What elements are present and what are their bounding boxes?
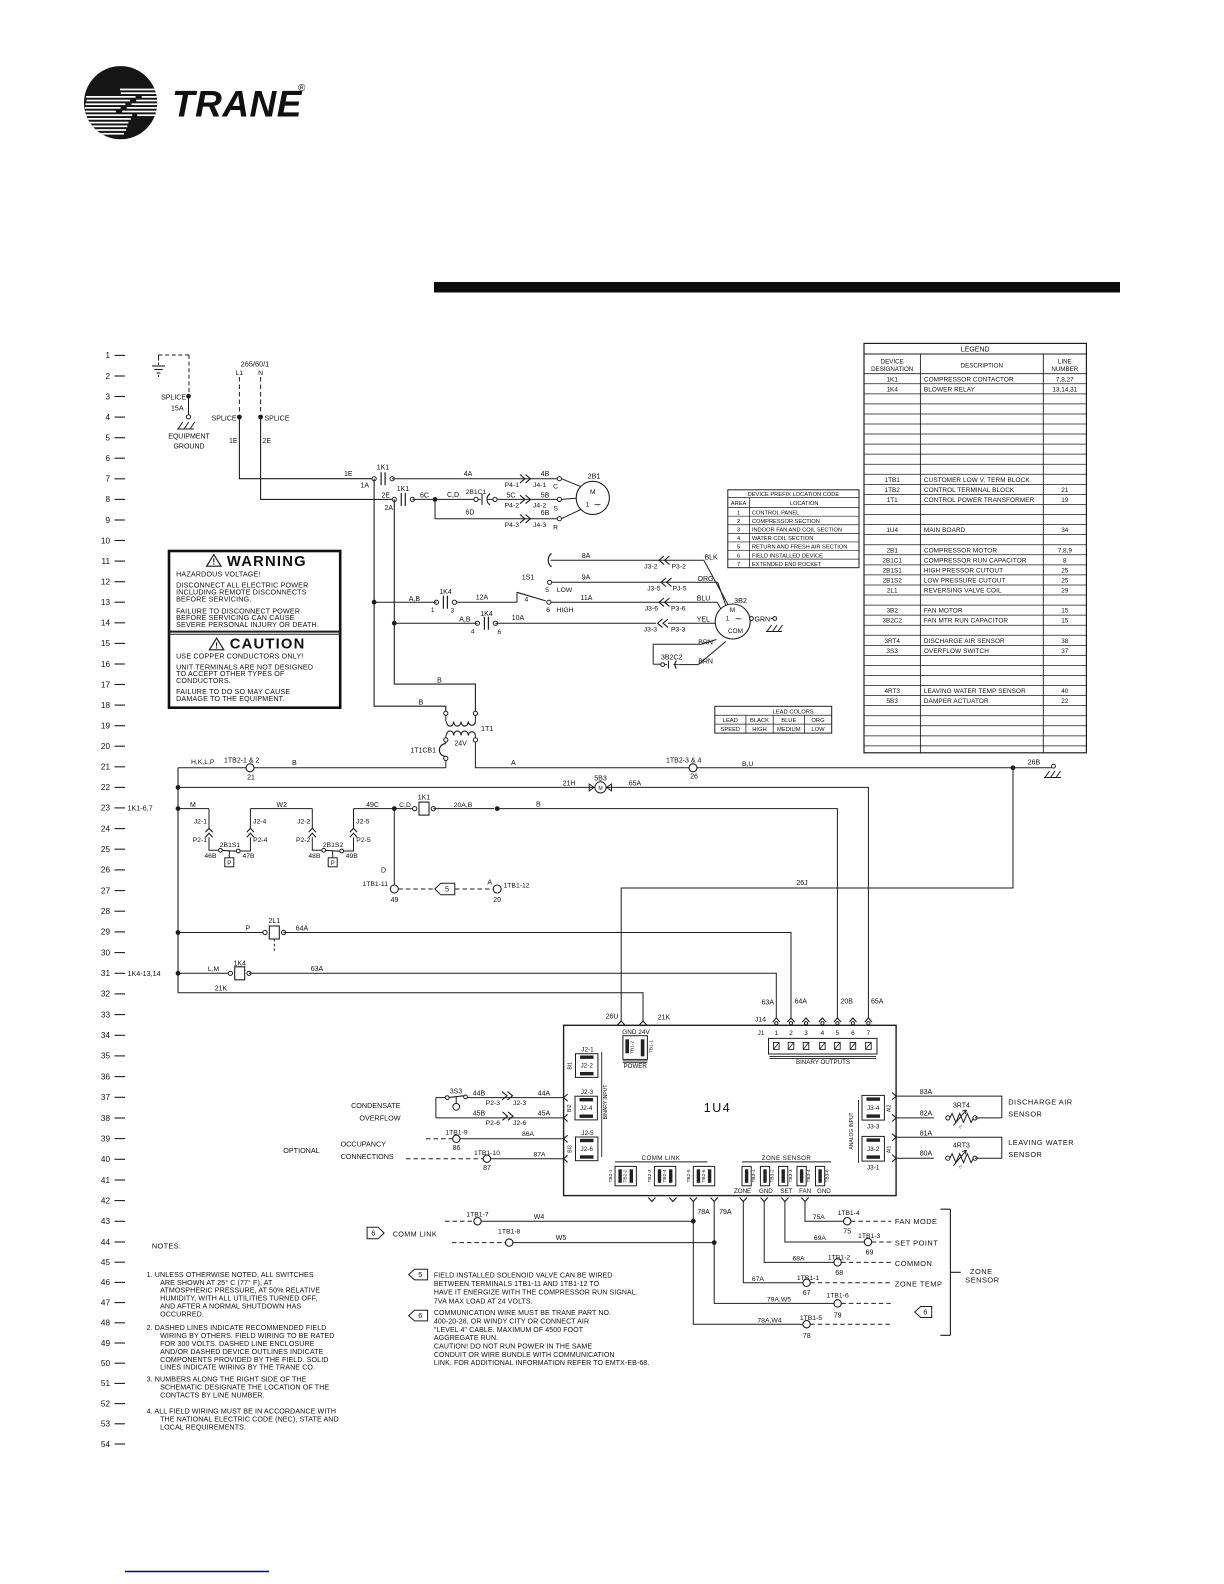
terminal 1TB1-5 bbox=[757, 1315, 891, 1340]
svg-text:ANALOG INPUT: ANALOG INPUT bbox=[849, 1112, 855, 1149]
svg-text:27: 27 bbox=[101, 886, 111, 895]
wire 78A bbox=[693, 1202, 803, 1325]
svg-text:LOCAL REQUIREMENTS.: LOCAL REQUIREMENTS. bbox=[160, 1424, 246, 1432]
svg-text:1E: 1E bbox=[229, 438, 238, 445]
svg-text:DESCRIPTION: DESCRIPTION bbox=[961, 363, 1003, 370]
terminal 1TB1-10 (87A wire) bbox=[406, 1150, 564, 1172]
label EQUIPMENT GROUND bbox=[168, 434, 210, 451]
svg-text:6D: 6D bbox=[466, 509, 475, 516]
svg-text:J2-2: J2-2 bbox=[297, 818, 310, 825]
label 20B (vertical) bbox=[841, 999, 854, 1006]
wire 49C bbox=[354, 802, 395, 809]
svg-text:CONTROL PANEL: CONTROL PANEL bbox=[752, 510, 799, 516]
svg-text:FOR 300 VOLTS. DASHED LINE ENC: FOR 300 VOLTS. DASHED LINE ENCLOSURE bbox=[160, 1340, 315, 1348]
svg-text:GND: GND bbox=[622, 1029, 637, 1036]
svg-text:50: 50 bbox=[101, 1359, 111, 1368]
blower relay coil 1K4 bbox=[228, 960, 776, 1018]
note flag 6 comm link bbox=[367, 1227, 437, 1239]
svg-text:EXTENDED END POCKET: EXTENDED END POCKET bbox=[752, 562, 822, 568]
svg-text:1TB1-6: 1TB1-6 bbox=[826, 1292, 849, 1299]
connector J3-5/PJ-5 bbox=[647, 578, 686, 592]
svg-text:ZONE: ZONE bbox=[734, 1188, 751, 1195]
label 2E (line 8) bbox=[382, 493, 391, 500]
fan motor 3B2 bbox=[715, 596, 750, 639]
svg-text:3B2C2: 3B2C2 bbox=[661, 655, 683, 662]
svg-text:LEAVING WATER: LEAVING WATER bbox=[1008, 1138, 1074, 1147]
svg-text:ORG: ORG bbox=[811, 718, 825, 724]
svg-text:64A: 64A bbox=[296, 926, 309, 933]
svg-text:2B1S1: 2B1S1 bbox=[883, 567, 903, 574]
svg-text:A: A bbox=[511, 758, 516, 767]
svg-text:R: R bbox=[553, 525, 558, 532]
svg-text:SENSOR: SENSOR bbox=[965, 1276, 999, 1285]
svg-text:19: 19 bbox=[1061, 497, 1069, 504]
connector P4-1/J4-1 bbox=[505, 471, 550, 489]
svg-text:1T1: 1T1 bbox=[481, 724, 493, 733]
svg-text:C,D: C,D bbox=[399, 802, 411, 809]
svg-text:12A: 12A bbox=[476, 595, 489, 602]
node D (line 23) bbox=[392, 806, 397, 811]
compressor contactor 1K1 contact (line 8) bbox=[384, 486, 414, 512]
svg-text:21: 21 bbox=[247, 774, 255, 781]
svg-text:P2-1: P2-1 bbox=[193, 837, 208, 844]
svg-text:1K4-13,14: 1K4-13,14 bbox=[128, 969, 161, 978]
svg-text:CONDUCTORS.: CONDUCTORS. bbox=[176, 677, 231, 685]
compressor contactor 1K1 contact (line 7) bbox=[360, 465, 394, 490]
comm link connector TB2-5/TB2-6 bbox=[686, 1166, 715, 1185]
note 2 bbox=[147, 1324, 335, 1372]
svg-text:87A: 87A bbox=[533, 1151, 546, 1158]
schematic line-number scale 1-54 bbox=[101, 351, 161, 1449]
svg-text:J2-1: J2-1 bbox=[194, 818, 207, 825]
terminal C bbox=[553, 477, 561, 491]
equipment ground terminal bbox=[186, 415, 190, 419]
svg-text:J3-1: J3-1 bbox=[867, 1164, 880, 1171]
wire 75A fan mode bbox=[805, 1202, 843, 1222]
wire 21H (line 22) bbox=[178, 781, 593, 788]
svg-text:SET POINT: SET POINT bbox=[895, 1238, 938, 1247]
svg-text:COMMON: COMMON bbox=[895, 1259, 933, 1268]
svg-text:CONDUIT OR WIRE BUNDLE WITH CO: CONDUIT OR WIRE BUNDLE WITH COMMUNICATIO… bbox=[434, 1352, 615, 1359]
svg-text:1TB1-5: 1TB1-5 bbox=[800, 1315, 823, 1322]
svg-text:6: 6 bbox=[923, 1308, 927, 1317]
zone connector TB3-3 bbox=[779, 1166, 794, 1194]
label 63A (line 31) bbox=[311, 966, 324, 973]
svg-text:80A: 80A bbox=[920, 1151, 933, 1158]
svg-text:∼: ∼ bbox=[594, 500, 602, 511]
svg-text:L1: L1 bbox=[236, 370, 244, 377]
svg-text:1T1: 1T1 bbox=[887, 497, 898, 504]
svg-text:36: 36 bbox=[101, 1072, 111, 1081]
svg-text:10A: 10A bbox=[512, 615, 525, 622]
binary input bracket line bbox=[602, 1052, 609, 1157]
node line 31 bbox=[176, 971, 181, 976]
svg-text:LINES INDICATE WIRING BY THE T: LINES INDICATE WIRING BY THE TRANE CO. bbox=[160, 1364, 315, 1372]
svg-text:LEAD COLORS: LEAD COLORS bbox=[773, 709, 814, 715]
svg-text:COMPRESSOR RUN CAPACITOR: COMPRESSOR RUN CAPACITOR bbox=[924, 557, 1027, 564]
terminal 1TB2-1 and 2 bbox=[224, 757, 260, 781]
svg-text:1U4: 1U4 bbox=[704, 1101, 731, 1115]
svg-text:4A: 4A bbox=[464, 471, 473, 478]
svg-text:COMPRESSOR MOTOR: COMPRESSOR MOTOR bbox=[924, 547, 997, 554]
svg-text:P3-6: P3-6 bbox=[671, 605, 686, 612]
svg-text:78: 78 bbox=[803, 1333, 811, 1340]
svg-text:TB2-2: TB2-2 bbox=[623, 1169, 629, 1182]
svg-text:P2-2: P2-2 bbox=[296, 837, 311, 844]
svg-text:6: 6 bbox=[498, 629, 502, 636]
svg-text:49C: 49C bbox=[366, 802, 379, 809]
svg-text:HIGH: HIGH bbox=[752, 727, 767, 733]
svg-text:1TB1-12: 1TB1-12 bbox=[504, 882, 530, 889]
svg-text:52: 52 bbox=[101, 1399, 111, 1408]
svg-text:PJ-5: PJ-5 bbox=[673, 585, 687, 592]
label 1E (line 7) bbox=[344, 471, 353, 478]
label J14 bbox=[755, 1017, 766, 1024]
svg-text:13,14,31: 13,14,31 bbox=[1052, 386, 1077, 393]
svg-text:1TB1: 1TB1 bbox=[885, 477, 901, 484]
svg-text:45A: 45A bbox=[538, 1111, 551, 1118]
svg-text:3: 3 bbox=[804, 1030, 808, 1037]
svg-text:5: 5 bbox=[737, 545, 740, 551]
svg-text:LEAD: LEAD bbox=[723, 718, 738, 724]
wire 6D (line 9) bbox=[435, 499, 557, 518]
svg-text:4: 4 bbox=[737, 536, 740, 542]
svg-text:6: 6 bbox=[418, 1311, 422, 1320]
svg-text:J14: J14 bbox=[755, 1017, 766, 1024]
connector J2-2/P2-2 drop bbox=[296, 809, 316, 847]
svg-text:3S3: 3S3 bbox=[450, 1089, 463, 1096]
svg-text:EQUIPMENT: EQUIPMENT bbox=[168, 434, 210, 441]
svg-text:9A: 9A bbox=[582, 575, 591, 582]
svg-text:BLUE: BLUE bbox=[781, 718, 796, 724]
svg-text:2B1S2: 2B1S2 bbox=[323, 842, 344, 849]
terminal S bbox=[553, 497, 561, 512]
node line 14 on N leg bbox=[392, 621, 397, 626]
svg-text:5: 5 bbox=[445, 885, 449, 894]
svg-text:L,M: L,M bbox=[208, 966, 220, 973]
svg-text:21: 21 bbox=[101, 763, 111, 772]
splice node (equipment ground lead) bbox=[161, 394, 191, 415]
svg-text:J4-2: J4-2 bbox=[533, 503, 546, 510]
svg-text:RETURN AND FRESH AIR SECTION: RETURN AND FRESH AIR SECTION bbox=[752, 545, 847, 551]
svg-text:5B: 5B bbox=[541, 492, 550, 499]
svg-text:P4-2: P4-2 bbox=[505, 503, 520, 510]
svg-text:SET: SET bbox=[780, 1188, 792, 1195]
svg-text:SEVERE PERSONAL INJURY OR DEAT: SEVERE PERSONAL INJURY OR DEATH. bbox=[176, 621, 319, 629]
fan motor run capacitor 3B2C2 bbox=[653, 655, 682, 669]
circuit breaker 1T1CB1 bbox=[410, 742, 448, 768]
Trane logo bbox=[84, 66, 306, 139]
svg-text:GND: GND bbox=[817, 1188, 831, 1195]
svg-text:WATER COIL SECTION: WATER COIL SECTION bbox=[752, 536, 813, 542]
svg-text:LEAVING WATER TEMP SENSOR: LEAVING WATER TEMP SENSOR bbox=[924, 688, 1026, 695]
svg-text:7: 7 bbox=[867, 1030, 871, 1037]
svg-text:MEDIUM: MEDIUM bbox=[777, 727, 801, 733]
lead colors table bbox=[715, 706, 832, 733]
svg-text:46B: 46B bbox=[204, 853, 217, 860]
svg-text:CONTROL POWER TRANSFORMER: CONTROL POWER TRANSFORMER bbox=[924, 497, 1035, 504]
svg-text:TB1-1: TB1-1 bbox=[648, 1040, 654, 1053]
left control bus bbox=[177, 768, 179, 993]
wire D to 1TB1-11 bbox=[381, 809, 394, 885]
svg-text:FAN MTR RUN CAPACITOR: FAN MTR RUN CAPACITOR bbox=[924, 618, 1009, 625]
svg-text:5B3: 5B3 bbox=[887, 698, 899, 705]
svg-text:HAZARDOUS VOLTAGE!: HAZARDOUS VOLTAGE! bbox=[176, 571, 261, 579]
svg-text:P4-3: P4-3 bbox=[505, 522, 520, 529]
svg-text:26J: 26J bbox=[796, 880, 807, 887]
splice node L1 bbox=[212, 415, 242, 423]
svg-text:WIRING BY OTHERS. FIELD WIRING: WIRING BY OTHERS. FIELD WIRING TO BE RAT… bbox=[160, 1332, 334, 1340]
svg-text:J3-6: J3-6 bbox=[645, 605, 658, 612]
svg-text:29: 29 bbox=[101, 928, 111, 937]
svg-text:24V: 24V bbox=[454, 741, 467, 748]
svg-text:1TB1-11: 1TB1-11 bbox=[362, 881, 388, 888]
svg-text:25: 25 bbox=[1061, 578, 1069, 585]
note flag 5 text bbox=[409, 1269, 638, 1305]
svg-text:3B2: 3B2 bbox=[887, 608, 899, 615]
svg-text:W5: W5 bbox=[556, 1235, 567, 1242]
svg-text:ARE SHOWN AT 25° C (77° F), AT: ARE SHOWN AT 25° C (77° F), AT bbox=[160, 1279, 273, 1287]
svg-text:DAMAGE TO THE EQUIPMENT.: DAMAGE TO THE EQUIPMENT. bbox=[176, 695, 284, 703]
svg-text:15A: 15A bbox=[171, 406, 184, 413]
svg-text:COM: COM bbox=[728, 628, 743, 635]
svg-text:53: 53 bbox=[101, 1420, 111, 1429]
svg-text:LOCATION: LOCATION bbox=[790, 501, 819, 507]
zone connector TB3-1 bbox=[734, 1166, 757, 1194]
wire BLU to fan motor bbox=[697, 596, 722, 610]
svg-text:COMM LINK: COMM LINK bbox=[393, 1229, 437, 1238]
svg-text:39: 39 bbox=[101, 1134, 111, 1143]
label 26U bbox=[606, 1014, 619, 1021]
damper actuator 5B3 bbox=[589, 775, 611, 793]
svg-text:P2-6: P2-6 bbox=[486, 1120, 501, 1127]
svg-text:LEGEND: LEGEND bbox=[961, 346, 990, 353]
label 63A (vertical) bbox=[762, 1000, 775, 1007]
warning and caution box bbox=[169, 551, 340, 708]
svg-text:44B: 44B bbox=[473, 1091, 486, 1098]
svg-text:83A: 83A bbox=[920, 1089, 933, 1096]
svg-text:1A: 1A bbox=[360, 483, 369, 490]
wire B vertical from 1K1 line7 to transformer primary left bbox=[374, 479, 446, 711]
svg-text:45: 45 bbox=[101, 1258, 111, 1267]
svg-text:5: 5 bbox=[545, 587, 549, 594]
svg-text:ORG: ORG bbox=[698, 576, 714, 583]
note flag 6 (zone sensor) bbox=[915, 1307, 932, 1318]
svg-text:2L1: 2L1 bbox=[268, 918, 280, 925]
svg-text:25: 25 bbox=[1061, 567, 1069, 574]
svg-text:2B1S2: 2B1S2 bbox=[883, 578, 903, 585]
svg-text:7: 7 bbox=[737, 562, 740, 568]
svg-text:BEFORE SERVICING.: BEFORE SERVICING. bbox=[176, 595, 251, 603]
svg-text:31: 31 bbox=[101, 969, 111, 978]
svg-text:2. DASHED LINES INDICATE RECO: 2. DASHED LINES INDICATE RECOMMENDED FIE… bbox=[147, 1324, 327, 1332]
svg-text:7: 7 bbox=[105, 475, 110, 484]
terminal 1TB1-2 common bbox=[828, 1255, 933, 1277]
svg-text:12: 12 bbox=[101, 578, 111, 587]
svg-text:44A: 44A bbox=[538, 1091, 551, 1098]
analog input bracket line bbox=[849, 1100, 858, 1163]
svg-text:1U4: 1U4 bbox=[886, 527, 898, 534]
svg-text:1S1: 1S1 bbox=[522, 575, 535, 582]
svg-text:22: 22 bbox=[1061, 698, 1069, 705]
wire 65A (line 22) bbox=[607, 781, 869, 1018]
wire BRN lower bbox=[678, 642, 725, 666]
svg-text:J2-4: J2-4 bbox=[253, 818, 266, 825]
svg-text:GRN: GRN bbox=[755, 616, 771, 623]
svg-text:44: 44 bbox=[101, 1238, 111, 1247]
svg-text:2E: 2E bbox=[382, 493, 391, 500]
svg-text:t°: t° bbox=[959, 1165, 962, 1170]
low pressure cutout 2B1S2 bbox=[308, 842, 358, 867]
svg-text:CUSTOMER LOW V. TERM BLOCK: CUSTOMER LOW V. TERM BLOCK bbox=[924, 477, 1030, 484]
svg-text:BLU: BLU bbox=[697, 596, 711, 603]
svg-text:43: 43 bbox=[101, 1217, 111, 1226]
terminal 1TB1-1 zone temp bbox=[797, 1275, 943, 1297]
discharge air sensor 3RT4 bbox=[896, 1098, 1073, 1130]
leaving water sensor 4RT3 bbox=[896, 1138, 1074, 1170]
wire 6C to node bbox=[412, 492, 435, 499]
svg-text:1: 1 bbox=[105, 351, 110, 360]
svg-text:BLOWER RELAY: BLOWER RELAY bbox=[924, 386, 976, 393]
svg-text:AI1: AI1 bbox=[887, 1145, 893, 1153]
svg-text:78A,W4: 78A,W4 bbox=[757, 1317, 781, 1324]
analog input connector AI1 bbox=[862, 1136, 893, 1171]
svg-text:LOW PRESSURE CUTOUT: LOW PRESSURE CUTOUT bbox=[924, 578, 1006, 585]
label H,K,L,P bbox=[191, 759, 215, 766]
svg-text:7VA MAX LOAD AT 24 VOLTS.: 7VA MAX LOAD AT 24 VOLTS. bbox=[434, 1298, 533, 1305]
svg-text:J4-3: J4-3 bbox=[533, 522, 546, 529]
svg-text:1TB1-8: 1TB1-8 bbox=[498, 1229, 521, 1236]
svg-text:BLK: BLK bbox=[705, 555, 719, 562]
svg-text:1K1-6,7: 1K1-6,7 bbox=[128, 804, 153, 813]
terminal 1TB1-3 set point bbox=[858, 1233, 938, 1257]
svg-text:63A: 63A bbox=[311, 966, 324, 973]
svg-text:TRANE: TRANE bbox=[172, 84, 303, 125]
svg-text:FIELD INSTALLED SOLENOID VALVE: FIELD INSTALLED SOLENOID VALVE CAN BE WI… bbox=[434, 1273, 613, 1280]
svg-text:1. UNLESS OTHERWISE NOTED, AL: 1. UNLESS OTHERWISE NOTED, ALL SWITCHES bbox=[147, 1271, 314, 1279]
svg-text:6: 6 bbox=[851, 1030, 855, 1037]
svg-text:!: ! bbox=[215, 640, 218, 650]
label J1 and pin numbers bbox=[758, 1030, 871, 1037]
svg-text:J2-5: J2-5 bbox=[581, 1130, 594, 1137]
svg-text:USE COPPER CONDUCTORS ONLY!: USE COPPER CONDUCTORS ONLY! bbox=[176, 653, 303, 661]
svg-text:24: 24 bbox=[101, 824, 111, 833]
svg-text:1K1: 1K1 bbox=[887, 376, 899, 383]
footer link line bbox=[125, 1571, 269, 1573]
svg-text:SPLICE: SPLICE bbox=[212, 415, 237, 422]
svg-text:4B: 4B bbox=[541, 471, 550, 478]
svg-text:2L1: 2L1 bbox=[887, 588, 898, 595]
svg-text:W2: W2 bbox=[277, 802, 288, 809]
label 64A (vertical) bbox=[795, 999, 808, 1006]
wire 4A bbox=[392, 471, 557, 479]
svg-text:J2-4: J2-4 bbox=[580, 1105, 593, 1112]
high pressure cutout 2B1S1 bbox=[204, 842, 255, 867]
svg-text:34: 34 bbox=[101, 1031, 111, 1040]
svg-text:15: 15 bbox=[1061, 608, 1069, 615]
svg-text:DEVICE: DEVICE bbox=[881, 358, 904, 365]
svg-text:OCCUPANCY: OCCUPANCY bbox=[341, 1140, 387, 1149]
svg-text:∼: ∼ bbox=[735, 613, 743, 623]
svg-text:D: D bbox=[381, 868, 386, 875]
svg-text:J2-6: J2-6 bbox=[513, 1120, 526, 1127]
compressor contactor coil 1K1 bbox=[394, 795, 494, 816]
svg-text:8: 8 bbox=[105, 495, 110, 504]
note 3 bbox=[147, 1376, 330, 1400]
terminal 1TB1-7 (W4) bbox=[445, 1212, 693, 1225]
wire P (line 29) bbox=[178, 926, 263, 933]
earth ground symbol bbox=[152, 358, 165, 379]
svg-text:BETWEEN TERMINALS 1TB1-11 AND: BETWEEN TERMINALS 1TB1-11 AND 1TB1-12 TO bbox=[434, 1281, 600, 1288]
wire YEL to fan motor bbox=[668, 616, 715, 623]
svg-text:P4-1: P4-1 bbox=[505, 482, 520, 489]
svg-text:B: B bbox=[419, 698, 424, 707]
svg-text:TB3-4: TB3-4 bbox=[806, 1169, 812, 1182]
binary input connector BI1 bbox=[568, 1047, 598, 1078]
svg-text:DISCHARGE AIR SENSOR: DISCHARGE AIR SENSOR bbox=[924, 638, 1005, 645]
svg-text:1: 1 bbox=[737, 510, 740, 516]
svg-text:J3-2: J3-2 bbox=[867, 1146, 880, 1153]
svg-text:NOTES:: NOTES: bbox=[152, 1241, 181, 1250]
wire 81A bbox=[896, 1130, 1002, 1158]
board right edge arrows bbox=[892, 1093, 896, 1162]
svg-text:4: 4 bbox=[821, 1030, 825, 1037]
svg-text:1TB2: 1TB2 bbox=[885, 487, 901, 494]
svg-text:J3-5: J3-5 bbox=[647, 585, 660, 592]
svg-text:ZONE TEMP: ZONE TEMP bbox=[895, 1279, 942, 1288]
reversing valve coil 2L1 bbox=[263, 918, 286, 952]
svg-text:1E: 1E bbox=[344, 471, 353, 478]
svg-text:48: 48 bbox=[101, 1319, 111, 1328]
wire 8A with lead-in arc bbox=[548, 553, 704, 567]
svg-text:33: 33 bbox=[101, 1010, 111, 1019]
svg-text:8: 8 bbox=[1063, 557, 1067, 564]
svg-text:16: 16 bbox=[101, 660, 111, 669]
connector J3-2/P3-2 bbox=[644, 556, 686, 570]
svg-text:4: 4 bbox=[471, 628, 475, 635]
wire A (transformer secondary to line 21) bbox=[475, 742, 1013, 768]
label C,D (1K1 coil) bbox=[399, 802, 411, 809]
svg-text:P: P bbox=[227, 861, 231, 867]
svg-text:42: 42 bbox=[101, 1196, 111, 1205]
svg-text:OVERFLOW: OVERFLOW bbox=[359, 1114, 400, 1123]
svg-text:26U: 26U bbox=[606, 1014, 619, 1021]
wire line 21 left (B) bbox=[178, 767, 246, 769]
svg-text:21H: 21H bbox=[563, 781, 576, 788]
svg-text:BI1: BI1 bbox=[568, 1062, 574, 1070]
zone sensor header label bbox=[742, 1155, 831, 1162]
svg-text:J3-3: J3-3 bbox=[644, 627, 657, 634]
note 4 bbox=[147, 1408, 339, 1432]
svg-text:J2-2: J2-2 bbox=[580, 1063, 593, 1070]
svg-text:H,K,L,P: H,K,L,P bbox=[191, 759, 215, 766]
board left edge arrows bbox=[564, 1094, 568, 1162]
label 1E bbox=[229, 438, 238, 445]
svg-text:FAN MODE: FAN MODE bbox=[895, 1217, 938, 1226]
svg-text:79A: 79A bbox=[719, 1209, 732, 1216]
svg-text:3: 3 bbox=[451, 608, 455, 615]
svg-text:8A: 8A bbox=[582, 553, 591, 560]
svg-text:SPLICE: SPLICE bbox=[161, 395, 186, 402]
control power transformer 1T1 bbox=[444, 711, 494, 748]
svg-text:C: C bbox=[553, 484, 558, 491]
svg-text:65A: 65A bbox=[871, 999, 884, 1006]
svg-text:DISCHARGE AIR: DISCHARGE AIR bbox=[1008, 1098, 1072, 1107]
zone connector TB3-2 bbox=[759, 1166, 776, 1194]
svg-text:DESIGNATION: DESIGNATION bbox=[871, 366, 913, 373]
svg-text:75: 75 bbox=[843, 1229, 851, 1236]
terminal 1TB1-9 (86A wire) bbox=[426, 1130, 564, 1152]
